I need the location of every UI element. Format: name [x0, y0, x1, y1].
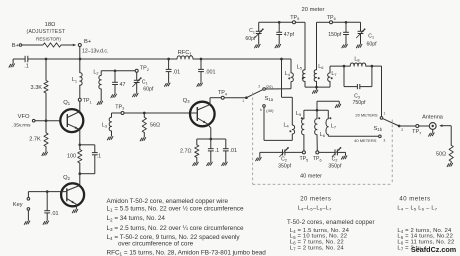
- svg-text:SeafdCz.com: SeafdCz.com: [411, 245, 456, 254]
- svg-text:TP7​: TP7​: [412, 129, 421, 135]
- svg-text:(ADJUST/TEST: (ADJUST/TEST: [27, 29, 66, 35]
- svg-text:750pf: 750pf: [353, 100, 367, 106]
- svg-text:C2​: C2​: [332, 156, 338, 162]
- svg-text:40 METERS: 40 METERS: [354, 138, 377, 143]
- svg-text:L3​ = 2.5 turns, No. 22 over ¼: L3​ = 2.5 turns, No. 22 over ¼ core circ…: [107, 225, 245, 232]
- svg-text:60pf: 60pf: [143, 86, 154, 92]
- svg-text:.01: .01: [173, 70, 181, 76]
- svg-text:.1: .1: [215, 148, 220, 154]
- svg-text:.1: .1: [24, 63, 29, 69]
- svg-text:TP1​: TP1​: [83, 98, 92, 104]
- svg-text:L5​: L5​: [296, 111, 301, 117]
- svg-text:1: 1: [242, 99, 244, 103]
- svg-text:Q3​: Q3​: [183, 98, 191, 104]
- svg-text:150pf: 150pf: [328, 32, 342, 38]
- svg-text:(20): (20): [266, 84, 274, 89]
- svg-text:L7​: L7​: [331, 124, 336, 130]
- svg-text:TP2​: TP2​: [140, 66, 149, 72]
- svg-text:C2​: C2​: [281, 156, 287, 162]
- svg-text:.01: .01: [51, 211, 59, 217]
- svg-text:L6​: L6​: [318, 64, 323, 70]
- svg-text:20 meters: 20 meters: [300, 197, 331, 203]
- svg-text:(40): (40): [266, 108, 274, 113]
- svg-text:over circumference of core: over circumference of core: [118, 241, 194, 248]
- svg-text:C1​: C1​: [368, 34, 374, 40]
- svg-text:L8​: L8​: [354, 57, 359, 63]
- svg-text:Key: Key: [13, 202, 23, 208]
- svg-text:2: 2: [258, 84, 260, 88]
- svg-text:L4​–L5​–L6​–L7​: L4​–L5​–L6​–L7​: [298, 206, 333, 212]
- svg-text:RFC1​: RFC1​: [178, 50, 193, 56]
- svg-text:L1​: L1​: [72, 77, 77, 83]
- svg-text:47: 47: [120, 82, 126, 88]
- svg-text:100: 100: [67, 153, 76, 159]
- svg-text:L1​ = 5.5 turns, No. 22 over ½: L1​ = 5.5 turns, No. 22 over ½ core circ…: [107, 205, 245, 213]
- svg-text:VFO: VFO: [18, 114, 30, 120]
- svg-text:2: 2: [401, 128, 403, 132]
- svg-text:B+: B+: [84, 39, 92, 45]
- svg-text:b: b: [260, 108, 262, 112]
- svg-text:12–13v.d.c.: 12–13v.d.c.: [82, 49, 108, 55]
- svg-text:RFC1​ = 15 turns, No. 28, Amid: RFC1​ = 15 turns, No. 28, Amidon FB-73-8…: [107, 249, 267, 256]
- svg-text:Antenna: Antenna: [422, 115, 444, 121]
- svg-text:L4​: L4​: [285, 71, 291, 77]
- svg-text:RESISTOR): RESISTOR): [36, 36, 61, 41]
- svg-text:40 meter: 40 meter: [300, 173, 322, 179]
- svg-text:.001: .001: [205, 70, 216, 76]
- svg-text:56Ω: 56Ω: [150, 123, 160, 129]
- svg-text:.1: .1: [97, 154, 102, 160]
- svg-text:Q1​: Q1​: [63, 100, 71, 106]
- svg-text:20 METERS: 20 METERS: [355, 112, 378, 117]
- svg-text:C3​: C3​: [354, 93, 360, 99]
- svg-text:40 meters: 40 meters: [399, 197, 430, 203]
- svg-text:C1​: C1​: [142, 79, 148, 85]
- svg-text:TP6​: TP6​: [327, 15, 336, 21]
- svg-text:1: 1: [384, 112, 386, 116]
- svg-text:.01: .01: [230, 148, 238, 154]
- svg-text:L3​: L3​: [102, 123, 107, 129]
- svg-text:Amidon T-50-2 core, enameled c: Amidon T-50-2 core, enameled copper wire: [107, 198, 229, 205]
- svg-text:60pf: 60pf: [245, 36, 256, 42]
- svg-text:TP3​: TP3​: [115, 104, 124, 110]
- svg-text:L4​: L4​: [283, 123, 289, 129]
- svg-text:3: 3: [383, 139, 385, 143]
- svg-text:L2​: L2​: [93, 70, 98, 76]
- svg-text:47pf: 47pf: [284, 32, 295, 38]
- svg-text:L6​: L6​: [320, 132, 325, 138]
- svg-text:L7​ = 2 turns, No. 24: L7​ = 2 turns, No. 24: [290, 245, 345, 251]
- svg-text:S1​a​: S1​a​: [265, 96, 274, 102]
- svg-text:B+: B+: [12, 43, 20, 49]
- svg-text:T-50-2 cores, enameled copper: T-50-2 cores, enameled copper: [287, 219, 375, 226]
- svg-text:S1​b​: S1​b​: [374, 126, 383, 132]
- svg-text:20 meter: 20 meter: [302, 7, 325, 13]
- svg-text:L2​ = 34 turns, No. 24: L2​ = 34 turns, No. 24: [107, 215, 166, 222]
- svg-text:TP5​: TP5​: [290, 15, 299, 21]
- svg-text:2.7K: 2.7K: [29, 136, 41, 142]
- svg-text:3.3K: 3.3K: [31, 85, 43, 91]
- svg-text:L4​ – L5​ L6​ – L7​: L4​ – L5​ L6​ – L7​: [397, 206, 437, 212]
- svg-text:.35v.rms: .35v.rms: [12, 123, 31, 129]
- svg-text:350pf: 350pf: [278, 164, 292, 170]
- svg-text:50Ω: 50Ω: [436, 152, 446, 158]
- svg-text:Q2​: Q2​: [63, 175, 71, 181]
- svg-text:L5​: L5​: [297, 65, 302, 71]
- svg-text:L7​: L7​: [331, 71, 336, 77]
- svg-text:60pf: 60pf: [367, 42, 378, 48]
- svg-text:2.7Ω: 2.7Ω: [180, 148, 192, 154]
- svg-text:18Ω: 18Ω: [45, 22, 56, 28]
- svg-text:350pf: 350pf: [328, 164, 342, 170]
- svg-text:TP4​: TP4​: [218, 90, 228, 96]
